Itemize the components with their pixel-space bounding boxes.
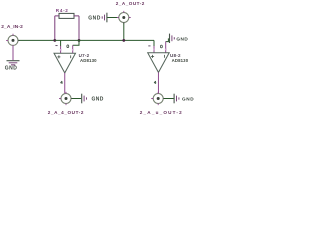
connector J4 (bottom right jack) [151, 92, 165, 105]
svg-text:R4-2: R4-2 [56, 8, 69, 13]
svg-text:GND: GND [92, 97, 104, 103]
pin 8 U7 [72, 45, 74, 53]
ground GND (below J1) [5, 61, 20, 72]
svg-text:GND: GND [176, 36, 188, 41]
connector J2 (bottom left jack) [59, 92, 73, 105]
svg-text:GND: GND [5, 66, 18, 72]
wire ground to J3 [107, 17, 118, 19]
ground GND (top right) [170, 34, 189, 43]
svg-text:U8-2: U8-2 [170, 53, 181, 58]
wire connector J1 to ground [12, 45, 14, 60]
wire J2 to ground [71, 98, 81, 100]
wire J3 down to bus [123, 23, 125, 41]
op-amp U7-2 [54, 53, 76, 73]
connector J3 (top right jack) [117, 11, 131, 24]
svg-text:2_A_u_OUT-2: 2_A_u_OUT-2 [140, 110, 183, 115]
pin label 1 (U7) [55, 45, 57, 47]
pin number 4 (U7 out) [60, 81, 62, 84]
svg-text:2_A_OUT-2: 2_A_OUT-2 [116, 1, 145, 6]
op-amp U8-2 [148, 53, 170, 73]
pin number 8 (U8) [160, 45, 162, 48]
connector J1 (input jack) [6, 34, 20, 47]
svg-text:GND: GND [88, 15, 101, 21]
junction B (R4-2 right / bus) [78, 39, 81, 42]
wire bus [55, 39, 154, 41]
svg-text:2_A_IN-2: 2_A_IN-2 [1, 24, 23, 30]
junction A (input / R4-2 left) [53, 39, 56, 42]
resistor R4-2 [55, 13, 79, 40]
ground GND (right of J4) [174, 94, 194, 104]
pin 1 U8 [153, 46, 155, 53]
wire J4 to ground [164, 98, 174, 100]
wire bus corner to U8 pin1 [153, 40, 155, 46]
pin 1 U7 [60, 46, 62, 53]
pin label 1 (U8) [148, 45, 150, 47]
wire input to bus [18, 39, 55, 41]
wire U7 +in jog [60, 40, 62, 46]
pin number 8 (U7) [67, 45, 69, 48]
svg-text:AD8130: AD8130 [172, 58, 189, 63]
wire U8 -in to ground [166, 38, 169, 41]
svg-text:2_A_4_OUT-2: 2_A_4_OUT-2 [48, 110, 84, 115]
pin number 4 (U8 out) [154, 81, 156, 84]
svg-text:GND: GND [182, 97, 194, 102]
wire U7 -in jog [73, 40, 79, 45]
pin 8 U8 [165, 41, 167, 52]
ground GND (top, left of J3) [88, 13, 107, 23]
svg-text:AD8130: AD8130 [80, 58, 97, 63]
pin 4 output U7 [64, 73, 66, 94]
ground GND (right of J2) [82, 94, 104, 104]
junction C (J3 / bus) [122, 39, 125, 42]
pin 4 output U8 [157, 72, 159, 93]
